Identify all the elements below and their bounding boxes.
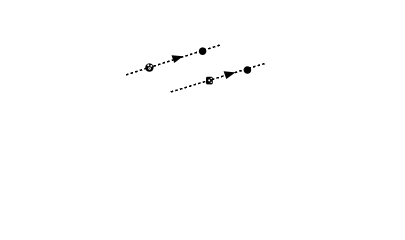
arrowhead on ray 2 (224, 71, 236, 79)
wire: dashed ray 2 (lower) (171, 64, 265, 93)
node B: textured square marker on ray 2 (206, 77, 213, 85)
arrowhead on ray 1 (172, 55, 184, 63)
filled dot on ray 1 (199, 47, 207, 55)
wire: dashed ray 1 (upper) (126, 45, 220, 75)
node A: textured circle marker on ray 1 (145, 63, 153, 71)
filled dot on ray 2 (244, 66, 252, 74)
